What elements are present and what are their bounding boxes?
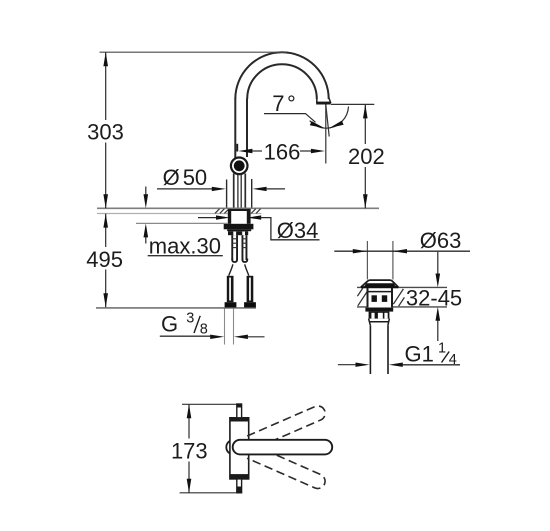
deck bottom line left [97,213,228,215]
label G38 underline [160,335,211,337]
drain body through deck [367,288,393,307]
threaded tail right [242,235,248,262]
dimension D63 arrow left [353,249,367,253]
deck top line [97,207,379,209]
dimension 202 line [364,104,366,208]
svg-text:4: 4 [449,352,457,368]
spout arc outer [235,52,328,99]
dimension D34 line left [198,217,217,219]
svg-text:166: 166 [264,140,301,165]
escutcheon right side [251,179,253,208]
7 degree arrowhead left [310,121,325,128]
dimension 303 arrow up [103,52,108,66]
top view extension line lower [180,492,242,494]
dimension max30 upper arrow [144,187,149,209]
hose connector right [244,276,256,309]
drain taper [369,319,390,326]
dimension G114 arrow left [356,363,370,367]
dimension G114 line left [338,364,357,366]
faucet handle circle outer [231,158,248,175]
tails manifold [228,231,248,235]
7 degree tilted line [326,105,329,137]
top view stem lower [237,479,242,493]
dimension D50 line right [266,188,285,190]
dimension 166 arrow left [238,149,252,153]
drain tailpipe left wire [369,325,371,374]
dimension G38 line right [248,336,265,338]
washer band [227,229,251,231]
svg-text:50: 50 [183,165,207,190]
dimension 495 line [105,214,107,308]
G38 extension line left [224,309,226,345]
svg-text:Ø34: Ø34 [277,218,319,243]
drain extension line right [392,241,394,280]
label G38 [161,311,208,338]
drain tailpipe right wire [387,325,389,374]
supply hose left [229,264,233,275]
dimension max30 lower arrow [144,223,149,243]
svg-text:32-45: 32-45 [406,286,462,311]
mounting shank right wall [247,209,251,224]
svg-text:Ø: Ø [163,165,180,190]
dimension 303 arrow down [103,194,108,208]
drain locknut flange [365,308,393,312]
deck hatch right [251,209,260,214]
7 degree leader [264,114,316,123]
svg-text:495: 495 [86,247,123,272]
dimension 166 line left [252,150,262,152]
supply hose right [245,264,249,275]
dimension D63 arrow right [393,249,407,253]
svg-text:1: 1 [438,341,446,357]
deck bottom line right [251,213,262,215]
svg-text:303: 303 [87,119,124,144]
top view valve bump [226,440,233,455]
dimension 173 line [188,404,190,493]
drain castellated nut [369,312,390,319]
threaded tail left [231,235,238,262]
dimension G114 arrow right [389,363,403,367]
top view body [230,418,249,479]
G38 extension line right [233,309,235,345]
spout outlet extension line [325,105,327,164]
dimension 303 line [105,52,107,208]
top view handle solid [233,440,332,455]
locknut [224,224,254,230]
sink deck hatch [357,288,404,306]
dimension D34 arrow right [247,215,261,219]
dimension 166 tick [236,144,238,152]
dimension D34 leader [261,218,320,240]
label G114 [405,341,457,368]
mounting shank left wall [228,209,231,224]
spout arc inner [247,64,317,99]
body column inner line b [240,175,242,208]
dimension 173 arrow up [187,404,192,418]
dimension 495 arrow up [103,214,108,228]
dimension D50 line left [157,188,213,190]
dimension G38 arrow left [210,335,224,339]
svg-text:Ø63: Ø63 [420,228,462,253]
dimension 202 arrow up [363,104,368,118]
label G114 underline [403,364,461,366]
faucet handle circle inner [234,160,245,171]
svg-text:7°: 7° [272,91,298,116]
drain extension line left [366,241,368,280]
dimension 32-45 line lower [436,307,441,341]
dimension 173 arrow down [187,479,192,493]
svg-text:8: 8 [200,321,208,337]
svg-text:3: 3 [186,311,194,327]
svg-text:202: 202 [348,144,385,169]
dimension 303 extension line top [100,51,287,53]
deck hatch left [215,209,228,214]
body column right edge [244,174,246,208]
dimension 202 extension line [331,103,374,105]
svg-text:max.30: max.30 [149,234,221,259]
body column left edge [233,174,235,208]
7 degree angle arc [310,107,349,129]
spout left tube inner wire [246,99,248,158]
label max30 underline [148,255,223,257]
svg-text:173: 173 [171,439,208,464]
svg-text:G: G [161,312,178,337]
7 degree arrowhead right [329,121,343,128]
spout outlet piece [316,97,331,105]
dimension max30 limit line [136,222,228,224]
top view handle dashed up [247,404,327,450]
dimension D34 arrow left [216,215,230,219]
sink deck bottom line [357,306,447,308]
dimension 32-45 line upper [436,252,441,288]
dimension D50 arrow right [253,187,267,191]
dimension 495 arrow down [103,293,108,307]
drain flange [361,280,399,287]
dimension 166 arrow right [311,149,325,153]
dimension D63 line [334,250,470,252]
dimension 202 arrow down [363,194,368,208]
escutcheon left side [226,180,228,208]
mounting shank top band [228,209,251,211]
top view handle dashed down [247,445,327,491]
dimension D50 arrow left [212,187,226,191]
dimension G38 arrow right [234,335,248,339]
spout left tube outer wire [234,99,236,159]
sink deck top line [357,286,447,288]
hose connector left [225,276,237,309]
svg-text:G1: G1 [405,342,434,367]
body column inner line a [237,175,239,208]
top view extension line upper [182,403,239,405]
top view stem upper [237,404,242,418]
hose bottom reference line [96,307,256,309]
dimension 166 line right [300,150,312,152]
